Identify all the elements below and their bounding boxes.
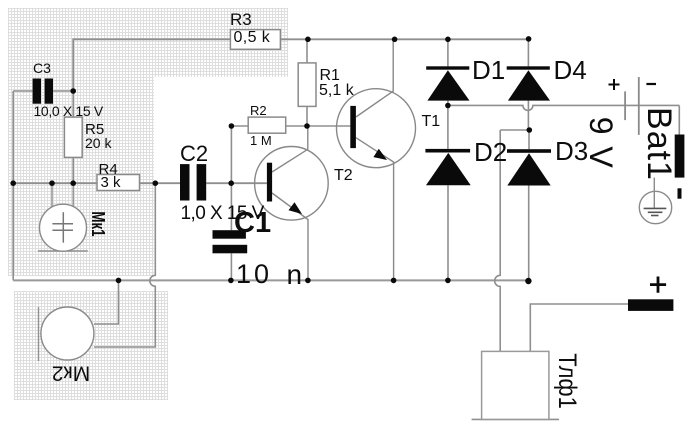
label T1: [422, 114, 441, 130]
label R4: [99, 162, 118, 177]
wire middle rail with hop over D4 lead: [448, 105, 679, 110]
label D4: [554, 57, 587, 83]
junction node D1-D2: [445, 103, 451, 109]
wire D2 top lead: [447, 106, 449, 149]
junction node Mk2 bottom rail: [116, 278, 122, 284]
junction node T1 collector top: [392, 37, 398, 43]
label C3 value: [34, 104, 103, 118]
wire T1 base lead: [307, 125, 350, 127]
diode D4 triangle: [508, 70, 550, 100]
microphone Mk2 circle: [41, 307, 94, 360]
junction node R2 right T1 base: [304, 123, 310, 129]
telephone Tlf1 box: [482, 351, 549, 419]
label R1 value: [319, 83, 354, 99]
wire D2 bottom lead: [447, 185, 449, 280]
junction node D4 top: [526, 36, 532, 42]
wire left vertical upper: [12, 91, 14, 183]
battery plate short positive: [624, 91, 626, 120]
resistor R5 box: [64, 117, 82, 157]
transistor T2 base bar: [267, 163, 272, 202]
transistor T2 circle: [255, 147, 329, 221]
resistor R2 box: [248, 117, 286, 133]
wire R1 top lead: [306, 39, 308, 63]
battery Bat1 body bar: [675, 135, 685, 178]
junction node D1 top: [445, 37, 451, 43]
label Mk1 rotated: [89, 211, 107, 236]
wire R5 bottom lead: [72, 157, 74, 183]
label R5: [85, 122, 104, 137]
junction node left rail: [10, 180, 16, 186]
junction node R2 left: [229, 123, 235, 129]
label R5 value: [85, 136, 111, 150]
ground bar 3: [651, 215, 659, 217]
wire left vertical lower: [12, 183, 14, 280]
wire Mk1 lead left: [51, 183, 53, 207]
label C1 value n: [287, 261, 303, 289]
label C2: [180, 143, 208, 165]
wire D3 top lead: [528, 130, 530, 149]
diode D1 cathode bar: [426, 66, 469, 69]
label Mk2 rotated: [51, 363, 89, 384]
wire vertical x155 with hop over bottom rail: [94, 183, 155, 347]
label R4 value: [101, 175, 121, 190]
wire R1 bottom lead: [306, 106, 308, 126]
label D1: [472, 57, 505, 83]
junction node D3 bottom rail end: [525, 278, 531, 284]
telephone plus sign: [650, 277, 666, 293]
label R2 value: [250, 134, 272, 147]
label R2: [250, 104, 267, 117]
wire D3 bottom lead: [528, 186, 530, 282]
capacitor C3 plates: [33, 79, 53, 104]
label R1: [320, 68, 340, 84]
junction node Mk1 right R5: [70, 180, 76, 186]
junction node C2 out: [228, 180, 234, 186]
battery minus sign: [646, 83, 656, 85]
ground bar 2: [648, 211, 663, 213]
label R3 value: [234, 30, 271, 46]
wire D1 bottom lead: [447, 101, 449, 106]
wire C1 bottom lead: [230, 253, 232, 280]
wire D1 top lead: [447, 39, 449, 66]
wire T1 emitter: [356, 138, 394, 281]
label D2: [474, 139, 507, 165]
label C3: [33, 61, 51, 75]
wire Mk2 top lead: [94, 280, 119, 324]
junction node C3-R5: [70, 88, 76, 94]
transistor T1 base bar: [350, 106, 356, 148]
telephone plus terminal bar: [628, 299, 673, 311]
wire mid rail segment 1: [13, 182, 97, 184]
wire mid rail segment 2: [140, 182, 181, 184]
label Tlf1 rotated: [555, 353, 580, 409]
ground circle: [639, 191, 671, 223]
wire R5 top lead: [72, 91, 74, 117]
Mk1 baseline: [38, 250, 88, 252]
diode D1 triangle: [427, 70, 469, 100]
battery Bat1 terminal tick: [678, 188, 682, 198]
label Bat1 rotated: [642, 107, 676, 181]
wire top rail right segment: [280, 38, 528, 40]
diode D2 triangle: [426, 153, 471, 185]
wire T1 collector: [356, 39, 393, 117]
junction node C1 bottom: [228, 278, 234, 284]
resistor R4 box: [97, 175, 140, 191]
wire T2 emitter: [272, 193, 308, 280]
junction node T2 emitter bottom: [305, 278, 311, 284]
label 9V rotated: [585, 117, 617, 170]
wire D4 bottom lead: [527, 101, 529, 130]
junction node T1 emitter bottom: [391, 278, 397, 284]
capacitor C2 plates: [180, 164, 206, 200]
wire mid rail segment 3: [206, 182, 267, 184]
label T2: [334, 168, 353, 184]
capacitor C1 plates: [213, 230, 248, 253]
diode D2 cathode bar: [425, 149, 470, 153]
wire vertical x500 with hop to Tlf1: [495, 130, 501, 351]
wire R2 left lead: [231, 125, 248, 127]
texture block top-left upper: [8, 8, 288, 77]
battery plus sign: [609, 79, 620, 90]
wire Tlf1 right lead: [530, 304, 628, 351]
ground stem: [653, 178, 655, 209]
label R3: [230, 11, 252, 28]
junction node D3-D4: [527, 127, 533, 133]
texture block top-left lower: [8, 77, 154, 276]
junction node Mk1 left: [49, 180, 55, 186]
junction node x155 rail: [153, 180, 159, 186]
wire battery right corner: [678, 105, 680, 134]
label C2 value: [181, 204, 264, 223]
microphone Mk1 circle: [40, 204, 87, 251]
label C1: [234, 209, 271, 238]
label D3: [555, 138, 588, 164]
transistor T2 emitter arrow: [289, 202, 303, 214]
resistor R3 box: [230, 30, 280, 50]
junction node D2 bottom: [445, 278, 451, 284]
wire C3 left lead: [13, 90, 32, 92]
battery plate long negative: [638, 77, 640, 135]
junction node R1 top: [305, 37, 311, 43]
diode D4 cathode bar: [507, 66, 550, 69]
transistor T1 emitter arrow: [373, 149, 387, 160]
diode D3 triangle: [507, 153, 550, 185]
Mk2 left tangent line: [38, 307, 40, 361]
label C1 value 10: [236, 261, 272, 288]
wire top-left corner vertical: [72, 38, 74, 91]
wire Mk1 lead right: [72, 183, 74, 207]
resistor R1 box: [298, 63, 316, 107]
Mk1 internal symbol: [52, 212, 73, 243]
ground bar 1: [644, 207, 667, 209]
wire R2 right lead: [286, 125, 307, 127]
wire vertical x231 R2 to C1: [230, 126, 232, 230]
wire C3 right lead: [53, 90, 73, 92]
transistor T1 circle: [337, 89, 416, 168]
texture block bottom-left: [14, 291, 168, 400]
diode D3 cathode bar: [507, 149, 551, 153]
wire top rail left segment: [73, 38, 230, 40]
Tlf1 box baseline: [472, 418, 559, 420]
wire T2 collector: [272, 126, 308, 172]
wire bottom rail: [13, 279, 528, 281]
wire node D3-D4 horizontal: [500, 129, 529, 131]
wire D4 top lead: [527, 39, 529, 66]
